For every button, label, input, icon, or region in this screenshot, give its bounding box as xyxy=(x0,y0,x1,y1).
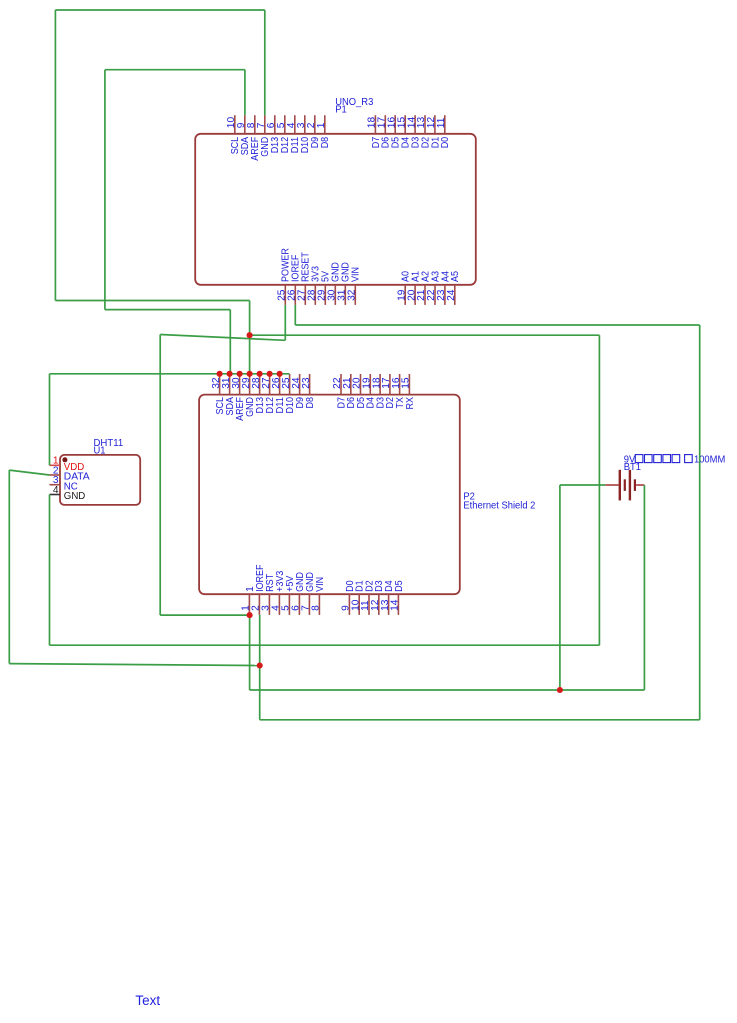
svg-text:RX: RX xyxy=(405,397,416,410)
U1 pin 2 DATA stub xyxy=(50,474,61,476)
svg-text:VIN: VIN xyxy=(351,267,362,282)
svg-text:A5: A5 xyxy=(450,271,461,282)
svg-text:32: 32 xyxy=(347,289,358,301)
junction at GND y335 xyxy=(247,332,253,338)
svg-text:1: 1 xyxy=(316,122,327,128)
P2 top pin names SCL..D8 D7..RX xyxy=(215,397,416,421)
junction at P2 pin2 column y665 xyxy=(257,662,263,668)
component U1 DHT11 outline xyxy=(60,455,140,505)
svg-text:P1: P1 xyxy=(335,104,347,115)
wire SDA net: left vertical x104 xyxy=(104,70,106,310)
svg-text:14: 14 xyxy=(390,599,401,611)
wire POWER net: battery left horizontal xyxy=(560,484,605,486)
wire GND net: horizontal y335 to right xyxy=(250,334,600,336)
U1 pin 4 GND stub xyxy=(50,494,61,496)
wire GND net: top horizontal xyxy=(55,9,264,11)
wire GND net: drop to P2 pin29 xyxy=(249,301,251,375)
wire GND net: right vertical x599 xyxy=(598,335,600,645)
battery BT1 short plate 2 xyxy=(634,479,636,491)
junction at P2 top pin 31 xyxy=(227,371,233,377)
junction at P2 top pin 30 xyxy=(237,371,243,377)
P1 top pin numbers xyxy=(226,117,447,129)
wire DATA net: horizontal y664 xyxy=(9,664,259,666)
svg-text:8: 8 xyxy=(311,605,322,611)
svg-text:D8: D8 xyxy=(320,137,331,149)
wire DATA net: diagonal from U1 pin2 xyxy=(9,470,49,475)
svg-text:100MM: 100MM xyxy=(694,455,725,466)
junction at P2 top pin 27 xyxy=(267,371,273,377)
wire IOREF net: right vertical x699 xyxy=(699,325,701,720)
wire POWER net: battery right vertical xyxy=(643,485,645,690)
svg-text:D0: D0 xyxy=(440,137,451,149)
P1 bottom pin names POWER..VIN A0..A5 xyxy=(281,248,462,282)
P1 top pin names SCL..D8 D7..D0 xyxy=(230,136,451,160)
svg-text:U1: U1 xyxy=(94,446,106,457)
svg-text:VIN: VIN xyxy=(315,577,326,592)
U1 pin 3 NC stub xyxy=(50,484,61,486)
P1 top pins 10-1 and 18-11 xyxy=(235,115,445,134)
U1 pin 1 VDD stub xyxy=(50,464,61,466)
svg-text:Text: Text xyxy=(135,993,160,1008)
P1 bottom pin numbers xyxy=(277,289,458,301)
wire GND net: left vertical up to U1 pin4 xyxy=(49,495,51,646)
svg-text:D8: D8 xyxy=(305,397,316,409)
battery BT1 long plate 2 xyxy=(629,470,631,501)
wire IOREF net: bottom horizontal y719 xyxy=(260,719,700,721)
battery BT1 long plate 1 xyxy=(619,470,621,501)
svg-text:11: 11 xyxy=(436,117,447,128)
junction at P2 top pin 29 xyxy=(247,371,253,377)
svg-text:15: 15 xyxy=(401,377,412,389)
junction at P2 top pin 28 xyxy=(257,371,263,377)
wire SDA net: top horizontal y70 xyxy=(105,69,245,71)
svg-text:Ethernet Shield 2: Ethernet Shield 2 xyxy=(463,501,535,512)
battery BT1 right lead xyxy=(636,484,644,486)
P2 bottom pin names 1 IOREF..VIN D0..D5 xyxy=(245,565,405,592)
component P1 UNO_R3 outline xyxy=(195,134,476,285)
wire IOREF net: P1 pin26 drop xyxy=(294,305,296,325)
wire POWER net: bottom horizontal y690 xyxy=(250,689,645,691)
P2 top pins 32-23 and 22-15 xyxy=(220,374,410,395)
svg-text:4: 4 xyxy=(53,485,59,496)
junction at P2 pin1 xyxy=(247,612,253,618)
junction at battery branch y690 xyxy=(557,687,563,693)
P2 top pin numbers xyxy=(211,377,412,389)
wire IOREF net: up to P2 pin2 xyxy=(259,615,261,720)
battery BT1 left lead xyxy=(605,484,618,486)
U1 pin names VDD DATA NC GND xyxy=(64,462,90,502)
svg-text:BT1: BT1 xyxy=(624,462,642,473)
wire POWER net: P1 pin25 drop xyxy=(284,305,286,340)
wire bus horizontal y374 over P2 pins 32-25 xyxy=(50,373,290,375)
U1 pin numbers 1-4 xyxy=(53,456,59,496)
battery BT1 short plate 1 xyxy=(624,479,626,491)
wire GND net: bottom horizontal y645 xyxy=(50,644,600,646)
wire POWER net: battery left vertical xyxy=(559,485,561,690)
svg-text:D5: D5 xyxy=(394,580,405,592)
wire SDA net: P1 pin9 drop xyxy=(244,70,246,116)
junction at P2 top pin 26 xyxy=(277,371,283,377)
wire GND net: left vertical xyxy=(54,10,56,301)
P2 bottom pins 1-8 and 9-14 xyxy=(249,594,398,615)
P1 bottom pins 25-32 and 19-24 xyxy=(285,285,455,305)
P2 bottom pin numbers xyxy=(241,599,401,611)
component P2 Ethernet Shield 2 outline xyxy=(199,395,460,595)
wire GND net: P1 pin7 drop xyxy=(264,10,266,115)
U1 pin-1 marker dot xyxy=(62,457,67,462)
wire vertical x49 down to U1 pin1 xyxy=(49,374,51,466)
wire IOREF net: horizontal y324 xyxy=(295,324,699,326)
wire POWER net: vertical below P2 pin1 xyxy=(249,615,251,690)
svg-text:24: 24 xyxy=(446,289,457,301)
svg-text:GND: GND xyxy=(64,491,86,502)
wire SDA net: horizontal y309 xyxy=(105,309,230,311)
wire POWER net: vertical x160 xyxy=(159,335,161,616)
wire DATA net: left vertical x9 xyxy=(8,470,10,663)
label 9V battery value xyxy=(624,455,726,466)
wire GND net: horizontal y300 xyxy=(55,300,249,302)
wire POWER net: horizontal to P2 pin1 xyxy=(160,614,249,616)
junction at P2 top pin 32 xyxy=(217,371,223,377)
wire POWER net: diagonal xyxy=(160,335,285,341)
wire SDA net: drop to P2 pin31 xyxy=(229,310,231,374)
svg-text:23: 23 xyxy=(301,377,312,389)
